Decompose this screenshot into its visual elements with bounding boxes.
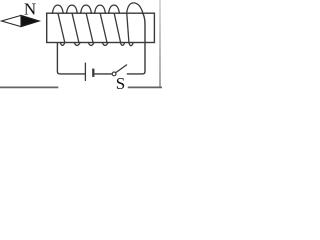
svg-text:N: N: [24, 0, 36, 19]
coil turn 2 bottom dip: [74, 43, 80, 46]
wire: right lead from coil down to switch contact: [127, 13, 145, 74]
coil turn 5 arch: [109, 5, 120, 13]
coil turn 1 arch: [52, 5, 63, 13]
wire: battery to switch pivot: [95, 73, 113, 75]
coil turn 1 back diagonal: [58, 14, 65, 42]
coil turn 4 arch: [95, 5, 106, 13]
svg-text:S: S: [116, 74, 125, 92]
wire: left lead from coil down to battery: [57, 43, 84, 74]
compass needle (N pole black, pointing right): [2, 15, 40, 26]
coil turn 3 arch: [81, 5, 92, 13]
coil turn 4 bottom dip: [102, 43, 108, 46]
coil turn 1 bottom dip: [60, 43, 65, 46]
battery cell: short negative plate: [92, 69, 94, 77]
coil turn 3 back diagonal: [86, 14, 93, 42]
switch S blade (open): [116, 65, 127, 73]
coil turn 6 back diagonal: [127, 14, 129, 42]
coil turn 2 arch: [67, 5, 78, 13]
wire: bottom rule left segment: [0, 86, 58, 88]
coil turn 4 back diagonal: [100, 14, 107, 42]
switch S pivot: [112, 72, 116, 76]
coil turn 2 back diagonal: [72, 14, 79, 42]
battery cell: long positive plate: [84, 63, 86, 81]
coil turn 3 bottom dip: [88, 43, 94, 46]
coil turn 6 bottom dip: [129, 43, 133, 46]
coil turns: [52, 3, 142, 46]
coil turn 6 arch (wide end turn): [127, 3, 143, 14]
solenoid core (rectangle): [47, 13, 155, 42]
wire: bottom rule right segment: [128, 86, 162, 88]
coil turn 5 bottom dip: [120, 43, 124, 46]
coil turn 5 back diagonal: [114, 14, 120, 42]
